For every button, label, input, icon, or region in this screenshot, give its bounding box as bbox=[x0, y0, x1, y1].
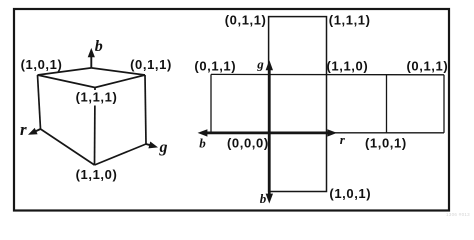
net axis b-down arrowhead bbox=[266, 194, 273, 204]
net right band right edge bbox=[443, 75, 445, 133]
cube top-back edge left (B to L) bbox=[38, 68, 92, 75]
cube label (1,1,1) bbox=[75, 90, 118, 106]
net axis b-left arrowhead bbox=[198, 129, 208, 136]
svg-text:b: b bbox=[95, 38, 103, 55]
svg-text:(0,1,1): (0,1,1) bbox=[194, 59, 236, 74]
svg-text:b: b bbox=[199, 136, 206, 151]
net horizontal bold axis line (b left / r right) bbox=[205, 132, 329, 135]
cube top-front edge right (F to R) bbox=[95, 75, 145, 88]
net horizontal band top edge bbox=[211, 73, 444, 75]
svg-text:(1,0,1): (1,0,1) bbox=[21, 57, 63, 72]
cube left vertical edge (L to BL) bbox=[38, 75, 41, 129]
svg-text:1306 #013: 1306 #013 bbox=[446, 212, 470, 217]
svg-text:(1,0,1): (1,0,1) bbox=[329, 186, 371, 201]
net right band divider bbox=[386, 75, 388, 133]
svg-text:r: r bbox=[20, 120, 27, 139]
cube axis b arrow bbox=[88, 48, 95, 68]
net axis g arrowhead bbox=[266, 60, 273, 70]
cube bottom-right edge (BF to BR) bbox=[95, 144, 147, 165]
net vertical bold axis line (g up / b down) bbox=[268, 69, 271, 195]
svg-text:(0,0,0): (0,0,0) bbox=[227, 135, 269, 150]
cube axis g arrow bbox=[146, 142, 158, 149]
svg-text:(1,1,0): (1,1,0) bbox=[327, 59, 369, 74]
svg-text:(1,1,0): (1,1,0) bbox=[76, 167, 118, 182]
svg-text:(1,0,1): (1,0,1) bbox=[365, 135, 407, 150]
svg-text:(1,1,1): (1,1,1) bbox=[76, 90, 118, 105]
cube right vertical edge (R to BR) bbox=[145, 75, 146, 144]
svg-text:(1,1,1): (1,1,1) bbox=[329, 12, 371, 27]
svg-text:(0,1,1): (0,1,1) bbox=[407, 59, 449, 74]
net axis r arrowhead bbox=[327, 129, 337, 136]
net central column rectangle bbox=[269, 17, 327, 192]
svg-text:(0,1,1): (0,1,1) bbox=[130, 57, 172, 72]
cube bottom-left edge (BL to BF) bbox=[41, 129, 95, 165]
cube front vertical edge (F to BF) bbox=[94, 88, 97, 166]
svg-text:g: g bbox=[159, 139, 168, 156]
cube top-front edge left (L to F) bbox=[38, 75, 96, 88]
net right band bottom edge bbox=[327, 132, 445, 134]
svg-text:g: g bbox=[256, 56, 264, 71]
svg-text:b: b bbox=[260, 191, 267, 206]
cube top-back edge right (B to R) bbox=[91, 68, 145, 75]
cube axis r arrow bbox=[28, 128, 41, 135]
net left square left edge bbox=[210, 74, 212, 132]
svg-text:(0,1,1): (0,1,1) bbox=[225, 12, 267, 27]
